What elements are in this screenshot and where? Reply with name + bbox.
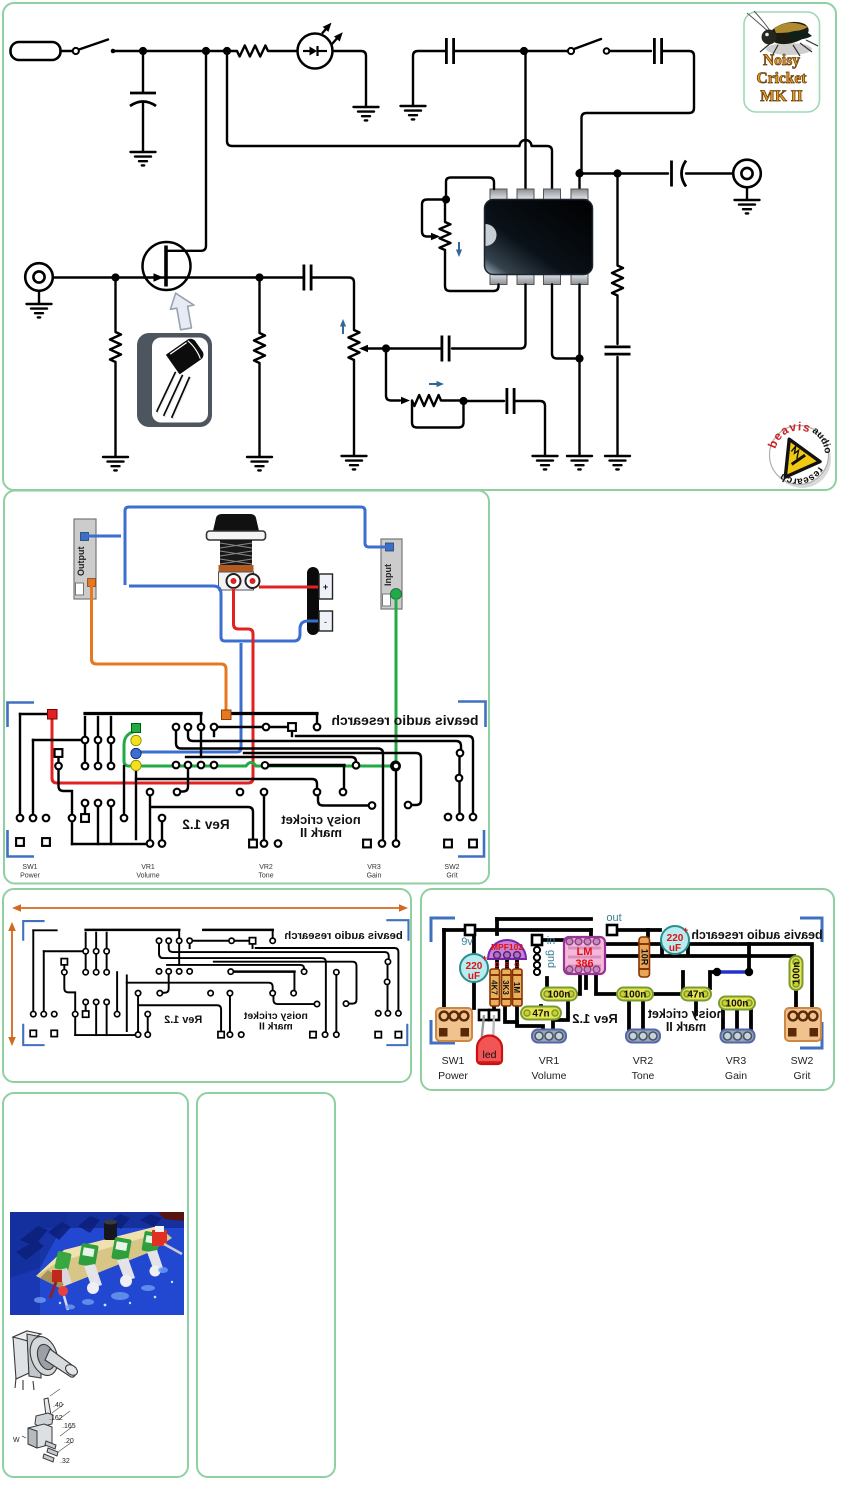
jumper wire [713, 968, 753, 976]
svg-text:+: + [323, 582, 328, 592]
wire jack ground [38, 291, 40, 304]
svg-text:Volume: Volume [136, 873, 159, 880]
capacitor 100n d [790, 956, 803, 990]
pin top 1 [490, 189, 507, 200]
svg-text:VR2: VR2 [633, 1055, 654, 1067]
svg-text:Output: Output [76, 547, 86, 577]
svg-text:100n: 100n [726, 999, 749, 1010]
output jack J2 [733, 160, 761, 188]
wire to R3 [258, 278, 260, 334]
svg-text:Rev 1.2: Rev 1.2 [182, 817, 229, 832]
ground LED [354, 107, 379, 120]
battery B1 [11, 42, 61, 60]
ground IC [567, 456, 592, 469]
green wire pad [132, 724, 141, 733]
grit switch SW2 [568, 39, 609, 54]
wire C3 to SW2 [454, 50, 568, 52]
wire VR3 loop [412, 401, 464, 428]
logo beavis audio research [761, 412, 840, 493]
transistor MPF102 [488, 940, 526, 969]
wire to R2 [114, 278, 116, 333]
wire input rail [53, 276, 304, 278]
svg-text:W: W [13, 1437, 20, 1444]
label VR3 [367, 864, 382, 880]
led pad 1 [479, 1010, 489, 1020]
svg-text:100n: 100n [548, 990, 571, 1001]
silkscreen text rev [182, 817, 229, 832]
wire VR3 to C8 [464, 400, 505, 402]
panel 5 photos frame [3, 1093, 188, 1477]
pcb corner brackets [23, 920, 408, 1045]
op-amp U1 LM386 [485, 189, 593, 285]
potentiometer VR3 volume [412, 395, 441, 406]
wire VR1 bottom to pin 1 [445, 250, 499, 291]
panel 1 schematic frame [3, 3, 836, 490]
label SW2 [791, 1055, 814, 1082]
ground C3 [401, 106, 426, 119]
pin top 3 [544, 189, 561, 200]
ground input jack [27, 304, 52, 317]
wire LED to ground [333, 51, 367, 107]
wire wiper lead [367, 347, 386, 349]
text rev [572, 1011, 618, 1026]
capacitor C8 [507, 388, 514, 414]
toggle switch drawing [13, 1389, 76, 1465]
wire jack to ground [746, 188, 748, 201]
svg-text:VR1: VR1 [539, 1055, 560, 1067]
panel 3 pcb frame [3, 889, 411, 1082]
svg-text:47n: 47n [532, 1009, 549, 1020]
node VR3 out [459, 397, 467, 405]
wire 9V to IC pin [227, 51, 552, 189]
wire green pcb run [124, 731, 393, 766]
ground VR2 [342, 456, 367, 469]
svg-text:Volume: Volume [531, 1070, 566, 1082]
resistor R1 [237, 46, 268, 57]
svg-text:out: out [606, 912, 621, 924]
capacitor 100n a [541, 988, 577, 1001]
svg-text:Gain: Gain [367, 873, 382, 880]
wire C5 to VR2 wiper [390, 347, 442, 349]
svg-text:386: 386 [575, 958, 593, 970]
wire SW2 to C4 [610, 50, 652, 52]
label SW2 [444, 864, 459, 880]
svg-text:Grit: Grit [446, 873, 457, 880]
svg-text:mark II: mark II [300, 825, 342, 840]
wire C4 return to pin 5 [582, 51, 695, 170]
red wire pad [48, 710, 58, 720]
IC LM386 [564, 937, 605, 974]
pcb corner brackets [8, 702, 486, 857]
node zobel [613, 169, 621, 177]
silkscreen text beavis audio research [284, 930, 402, 942]
svg-text:SW2: SW2 [791, 1055, 814, 1067]
blue wire dot [131, 748, 141, 758]
svg-text:VR3: VR3 [726, 1055, 747, 1067]
svg-text:SW2: SW2 [444, 864, 459, 871]
svg-text:VR3: VR3 [367, 864, 381, 871]
svg-text:Gain: Gain [725, 1070, 747, 1082]
svg-text:.40: .40 [53, 1402, 63, 1409]
svg-text:Tone: Tone [258, 873, 273, 880]
wire [441, 399, 464, 401]
svg-text:Power: Power [20, 873, 41, 880]
wire rail to IC pin 6 [524, 51, 526, 189]
ground C1 [131, 152, 156, 165]
pcb traces [33, 930, 398, 1035]
wire VR2 to ground [353, 360, 355, 456]
node rail pin6 [520, 47, 528, 55]
resistor 4K7 [490, 969, 500, 1006]
svg-text:in: in [547, 935, 556, 947]
svg-text:-: - [324, 617, 327, 627]
wire battery to switch [61, 50, 73, 52]
node 9V junction C1 [139, 47, 147, 55]
svg-text:+: + [482, 953, 487, 963]
wire green input to pcb [395, 599, 398, 762]
wire wiper to VR3 [386, 349, 400, 401]
label VR2 [258, 864, 273, 880]
potentiometer drawing [13, 1331, 79, 1390]
svg-text:D: D [494, 962, 499, 969]
wire VR1 wiper loop [422, 200, 442, 237]
svg-text:VR2: VR2 [259, 864, 273, 871]
label VR2 [632, 1055, 655, 1082]
ground output jack [735, 200, 760, 213]
wire C6 to output jack [686, 172, 733, 174]
node pin4 gnd [575, 354, 583, 362]
node source R3 [255, 273, 263, 281]
wire node to R4 [616, 174, 618, 266]
connector VR3 [721, 1030, 755, 1043]
svg-text:beavis audio research: beavis audio research [331, 712, 478, 728]
logo Noisy Cricket MK II [744, 11, 820, 112]
ground R3 [247, 457, 272, 470]
svg-text:10R: 10R [639, 949, 649, 966]
svg-text:.20: .20 [64, 1438, 74, 1445]
resistor 1M [512, 969, 522, 1006]
resistor R3 [254, 333, 265, 363]
green pad at input wire [391, 762, 400, 771]
wire pin2 to gnd rail [552, 285, 580, 359]
pin top 4 [571, 189, 588, 200]
node VR1 top [442, 195, 450, 203]
svg-text:47n: 47n [687, 990, 704, 1001]
wire orange output to pcb [92, 586, 227, 710]
pin bottom 2 [517, 274, 534, 285]
svg-text:3K3: 3K3 [501, 980, 510, 995]
transistor Q1 JFET [143, 242, 191, 290]
wire Q1 drain to 9V [166, 51, 206, 251]
panel 6 empty frame [197, 1093, 335, 1477]
capacitor C6 output [672, 161, 687, 187]
svg-text:Tone: Tone [632, 1070, 655, 1082]
wire R2 to ground [114, 362, 116, 457]
svg-text:led: led [482, 1049, 496, 1061]
silkscreen text noisy cricket [281, 812, 361, 840]
switch power [436, 1008, 472, 1041]
capacitor C3 [446, 38, 453, 64]
wire blue footswitch to battery [129, 586, 318, 641]
resistor R4 zobel [612, 266, 623, 296]
ground C8 [533, 456, 558, 469]
svg-text:mark II: mark II [666, 1020, 706, 1034]
board traces [444, 919, 812, 1032]
svg-text:Input: Input [383, 564, 393, 586]
svg-text:.162: .162 [49, 1415, 63, 1422]
pin bottom 1 [490, 274, 507, 285]
svg-text:S: S [505, 962, 510, 969]
wire C2 to VR2 [312, 278, 354, 331]
pcb pads [16, 723, 477, 847]
led pad 2 [489, 1010, 499, 1020]
wire C7 to ground [616, 357, 618, 456]
wire to C1 [142, 51, 144, 92]
wire to C6 [580, 172, 669, 174]
svg-text:MK II: MK II [760, 88, 803, 105]
ground zobel [605, 456, 630, 469]
power switch SW1 [73, 40, 116, 55]
pin top 2 [517, 189, 534, 200]
pcb pads [30, 938, 401, 1038]
gnd pads [534, 947, 540, 975]
resistor 10R [639, 937, 650, 977]
photo circuit board [10, 1212, 184, 1315]
wire R3 to ground [258, 363, 260, 457]
node output pin5 [575, 169, 583, 177]
LED D1 [298, 23, 343, 69]
capacitor 47n b [681, 988, 711, 1001]
svg-text:gnd: gnd [545, 950, 557, 968]
svg-text:100n: 100n [624, 990, 647, 1001]
svg-text:beavis audio research: beavis audio research [691, 928, 822, 942]
9v pad [465, 925, 475, 935]
TO-92 package picture [137, 333, 212, 427]
in pad [532, 935, 542, 945]
svg-text:.32: .32 [60, 1458, 70, 1465]
svg-text:Rev 1.2: Rev 1.2 [164, 1014, 202, 1026]
wire R4 to C7 [616, 296, 618, 345]
resistor R2 [110, 332, 121, 362]
capacitor 220uF cap 2 [661, 925, 689, 954]
footswitch [207, 514, 266, 590]
svg-text:+: + [683, 925, 688, 935]
text noisy cricket [647, 1007, 724, 1034]
pcb traces [20, 714, 473, 845]
capacitor C1 [130, 93, 156, 106]
capacitor 47n a [521, 1007, 561, 1020]
svg-text:9v: 9v [461, 936, 473, 948]
svg-text:SW1: SW1 [22, 864, 37, 871]
label VR1 [531, 1055, 566, 1082]
wire VR1 top lead [444, 203, 446, 222]
svg-text:VR1: VR1 [141, 864, 155, 871]
svg-text:uF: uF [669, 943, 681, 954]
wire C1 to ground [142, 103, 144, 153]
output jack [74, 519, 96, 599]
node 9V junction feedback [223, 47, 231, 55]
svg-text:noisy cricket: noisy cricket [243, 1011, 308, 1022]
node VR2 wiper [382, 344, 390, 352]
label SW1 [438, 1055, 468, 1082]
svg-text:SW1: SW1 [442, 1055, 465, 1067]
label VR1 [136, 864, 159, 880]
svg-text:noisy cricket: noisy cricket [647, 1007, 724, 1021]
svg-text:Grit: Grit [794, 1070, 811, 1082]
svg-text:1M: 1M [512, 982, 521, 993]
connector VR2 [626, 1030, 660, 1043]
text beavis audio research [691, 928, 822, 942]
pin bottom 4 [571, 274, 588, 285]
svg-text:Rev 1.2: Rev 1.2 [572, 1011, 618, 1026]
pin bottom 3 [544, 274, 561, 285]
potentiometer VR1 gain [440, 222, 451, 250]
wire ground to C3 [413, 51, 446, 106]
svg-text:Power: Power [438, 1070, 468, 1082]
svg-text:Cricket: Cricket [757, 70, 808, 87]
capacitor C2 [304, 265, 311, 291]
capacitor 100n b [617, 988, 653, 1001]
svg-text:uF: uF [468, 971, 480, 982]
panel 2 wiring frame [4, 491, 489, 884]
LED led [477, 1015, 502, 1064]
label VR3 [725, 1055, 747, 1082]
wire VR1 to pin 8 [446, 178, 494, 200]
wire C8 to ground [514, 401, 545, 456]
switch grit [785, 1008, 821, 1041]
capacitor 100n c [719, 997, 755, 1010]
ground R2 [103, 457, 128, 470]
svg-text:mark II: mark II [259, 1021, 293, 1032]
svg-text:MPF102: MPF102 [491, 942, 523, 952]
silkscreen text rev [164, 1014, 202, 1026]
wire red footswitch to battery [259, 586, 318, 589]
wire red footswitch to pcb [52, 588, 253, 783]
node input R2 [111, 273, 119, 281]
svg-text:4K7: 4K7 [490, 980, 499, 995]
capacitor C7 zobel [605, 347, 631, 354]
panel 4 board frame [421, 889, 834, 1090]
connector VR1 [532, 1030, 566, 1043]
wire blue battery to pcb [139, 643, 241, 752]
wire pin7 to C5 [452, 285, 526, 349]
svg-text:LM: LM [577, 946, 593, 958]
node 9V junction drain [202, 47, 210, 55]
orange wire pad [222, 710, 232, 720]
yellow wire dot 2 [131, 760, 141, 770]
svg-text:G: G [514, 962, 520, 969]
wire 9V rail left [113, 50, 237, 52]
resistor 3K3 [501, 969, 511, 1006]
yellow wire dot [131, 735, 141, 745]
wire R1 to LED [268, 50, 297, 52]
board brackets [431, 918, 822, 1048]
svg-text:.165: .165 [62, 1423, 76, 1430]
wire node to pin5 [578, 170, 580, 189]
svg-text:100n: 100n [792, 962, 803, 985]
dimension arrow horizontal [12, 904, 408, 912]
wire blue output to input [88, 507, 386, 585]
silkscreen text noisy cricket [243, 1011, 308, 1032]
battery clip [307, 567, 333, 635]
out pad [607, 925, 617, 935]
capacitor 220uF cap 1 [460, 953, 488, 982]
svg-text:Noisy: Noisy [763, 52, 800, 69]
silkscreen text beavis audio research [331, 712, 478, 728]
input jack J1 [25, 263, 53, 291]
potentiometer VR2 tone [349, 330, 360, 360]
capacitor C5 [442, 336, 449, 362]
input jack [381, 539, 402, 609]
capacitor C4 [654, 38, 661, 64]
wire pin4 to ground [578, 285, 580, 457]
annotation arrow [167, 290, 200, 332]
dimension arrow vertical [8, 922, 16, 1046]
svg-text:beavis audio research: beavis audio research [284, 930, 402, 942]
label SW1 [20, 864, 41, 880]
